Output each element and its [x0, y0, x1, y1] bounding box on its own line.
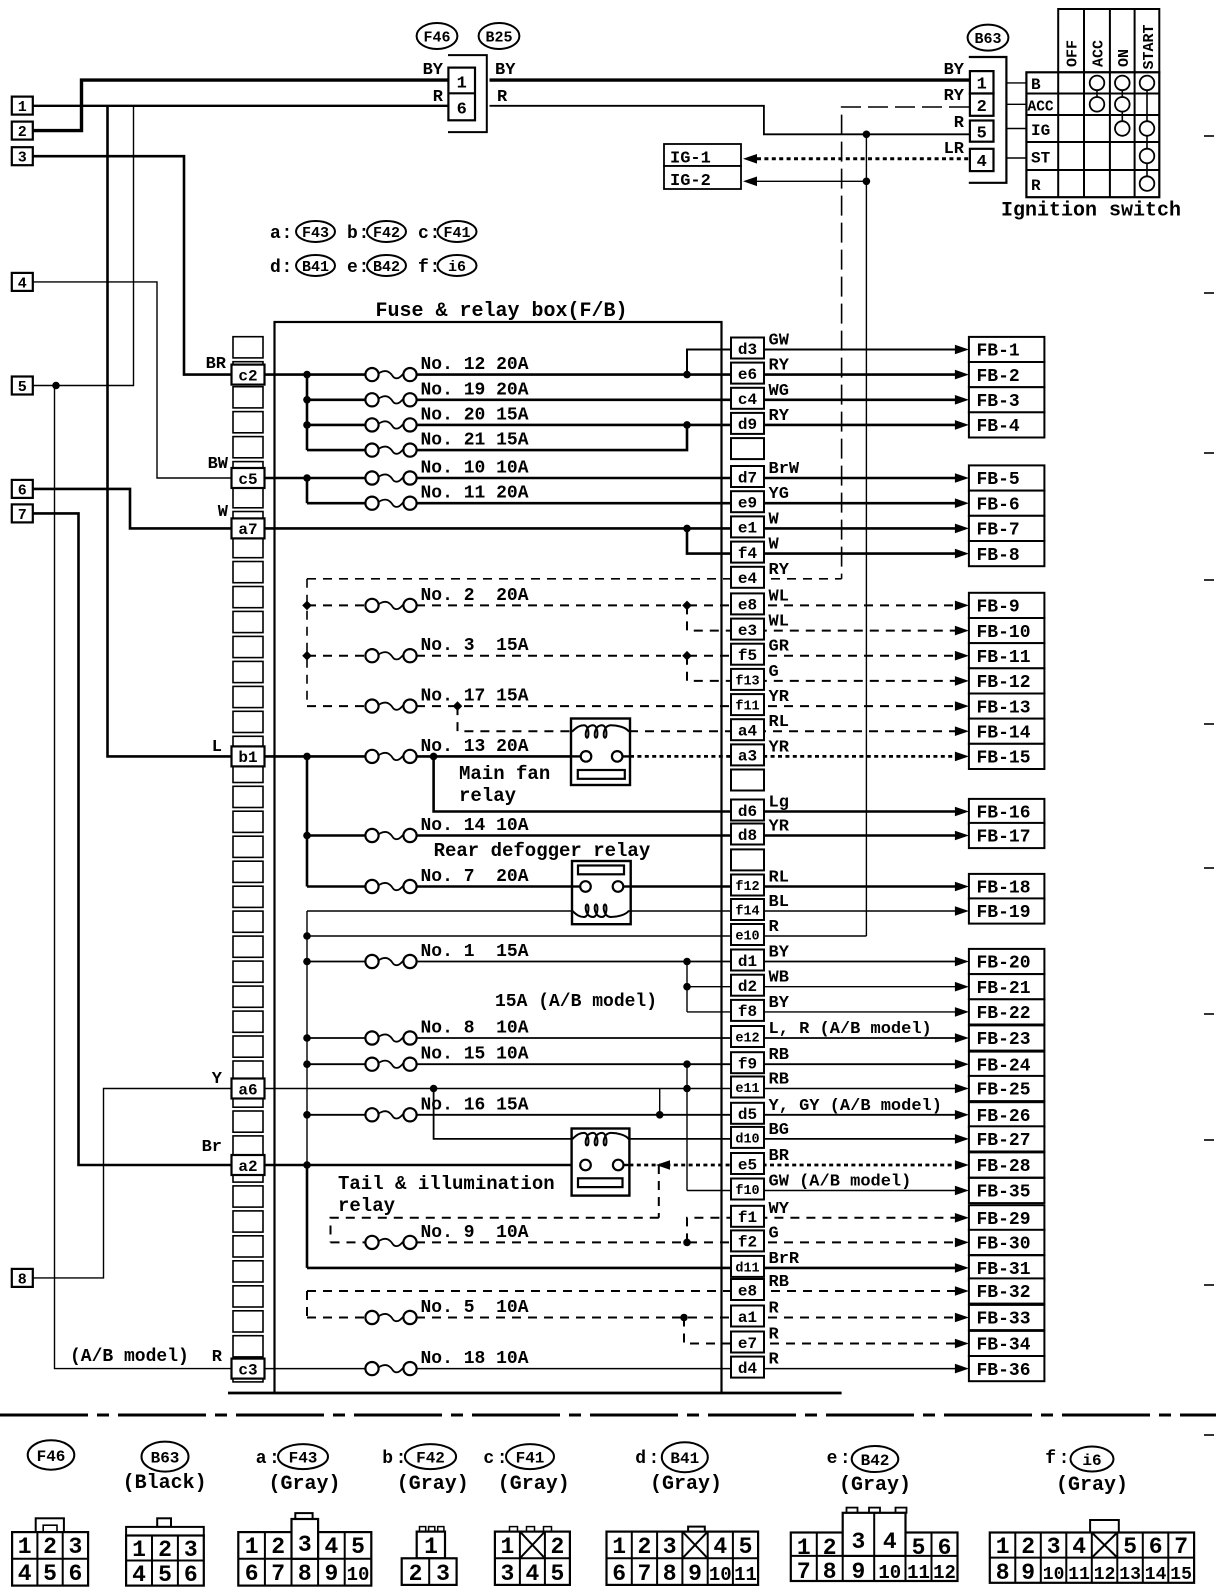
main fan relay contact right — [612, 751, 623, 762]
fuse No.9 — [365, 1236, 378, 1249]
contact circle B/START — [1140, 76, 1155, 91]
svg-text:a6: a6 — [238, 1081, 257, 1099]
cell c2 — [232, 365, 265, 385]
branch vertical d1-d2-f8 — [686, 962, 688, 1012]
svg-text:No. 8 10A: No. 8 10A — [421, 1019, 529, 1039]
svg-text:(Black): (Black) — [123, 1472, 207, 1495]
F42 pinout cell 1 — [417, 1532, 445, 1559]
wire LR dotted from B63 pin 4 to IG-1 — [757, 157, 969, 160]
svg-text:B42: B42 — [861, 1452, 890, 1470]
svg-text:b1: b1 — [238, 749, 257, 767]
arrow into FB-8 — [955, 549, 969, 559]
svg-text:Y, GY (A/B model): Y, GY (A/B model) — [769, 1097, 942, 1116]
arrow into FB-24 — [955, 1059, 969, 1069]
svg-text:d: d — [270, 258, 281, 278]
svg-text:BrR: BrR — [769, 1250, 800, 1269]
cell a2 — [232, 1155, 265, 1175]
edge tick mark — [1204, 452, 1214, 454]
box FB-2 — [969, 362, 1045, 387]
svg-text:a1: a1 — [738, 1309, 757, 1327]
wire branch down to cell f4 — [687, 528, 965, 553]
svg-text:d4: d4 — [738, 1360, 758, 1378]
svg-text:11: 11 — [907, 1562, 930, 1584]
svg-text:d8: d8 — [738, 827, 757, 845]
svg-text:ACC: ACC — [1091, 40, 1108, 67]
svg-text:5: 5 — [739, 1534, 753, 1560]
svg-text:BW: BW — [208, 455, 229, 474]
svg-text:2: 2 — [977, 98, 987, 117]
box FB-24 — [969, 1052, 1045, 1077]
svg-text:GR: GR — [769, 638, 790, 657]
svg-text:FB-24: FB-24 — [977, 1056, 1031, 1076]
right strip cell d3 — [731, 338, 764, 359]
arrow into FB-21 — [955, 982, 969, 992]
svg-text:RY: RY — [769, 407, 790, 426]
svg-text:R: R — [769, 1300, 780, 1319]
contact link ON column — [1121, 83, 1123, 129]
arrow into FB-13 — [955, 701, 969, 711]
svg-text:d: d — [635, 1449, 646, 1469]
svg-text:13: 13 — [1119, 1565, 1141, 1585]
svg-text:G: G — [769, 663, 779, 682]
svg-text:f13: f13 — [735, 674, 759, 689]
svg-text:i6: i6 — [1082, 1452, 1101, 1470]
svg-text:R: R — [497, 88, 508, 107]
svg-text:R: R — [954, 114, 965, 133]
F41 blocked cell X — [520, 1532, 545, 1559]
right strip cell d1 — [731, 950, 764, 971]
B63 pin 2 — [970, 94, 994, 116]
svg-text:5: 5 — [43, 1561, 57, 1587]
svg-text:a: a — [256, 1449, 267, 1469]
arrow into FB-17 — [955, 831, 969, 841]
box FB-23 — [969, 1025, 1045, 1050]
ignition switch table — [1026, 72, 1159, 197]
svg-text:1: 1 — [457, 75, 467, 94]
wire a2 row to tail relay — [263, 1164, 580, 1167]
svg-text:f: f — [1045, 1449, 1056, 1469]
main fan relay bar — [578, 770, 625, 779]
svg-text:FB-35: FB-35 — [977, 1183, 1031, 1203]
junction dot No.8 feed — [303, 1034, 311, 1042]
svg-text:d10: d10 — [735, 1132, 759, 1147]
svg-text:FB-3: FB-3 — [977, 392, 1020, 412]
svg-text:F41: F41 — [443, 225, 470, 242]
wire No.18 row from c3 to cell d4 — [263, 1368, 366, 1370]
svg-text:GW: GW — [769, 332, 790, 351]
svg-text:FB-7: FB-7 — [977, 521, 1020, 541]
svg-text:f5: f5 — [738, 647, 757, 665]
svg-text:4: 4 — [525, 1561, 539, 1587]
svg-text:BY: BY — [769, 944, 790, 963]
dashed drop from BR wire to No.9 feed — [658, 1165, 660, 1218]
svg-text:BL: BL — [769, 893, 789, 912]
svg-text:5: 5 — [351, 1534, 365, 1560]
right strip cell e5 — [731, 1153, 764, 1174]
bottom connector F43 oval — [278, 1444, 328, 1469]
svg-text:3: 3 — [184, 1537, 198, 1563]
svg-text:e8: e8 — [738, 1282, 757, 1300]
box FB-8 — [969, 541, 1045, 566]
IG-1 box — [664, 144, 741, 166]
svg-text:FB-4: FB-4 — [977, 417, 1020, 437]
defogger relay bar — [578, 866, 624, 875]
edge tick mark — [1204, 867, 1214, 869]
wire RY dashed from B63 pin 2 down toward cell e4 — [842, 107, 969, 579]
box FB-18 — [969, 874, 1045, 899]
svg-text:2: 2 — [43, 1534, 57, 1560]
svg-text:2: 2 — [409, 1561, 423, 1587]
box FB-35 — [969, 1178, 1045, 1203]
wire R (A/B model) from box 5 junction to cell c3 — [55, 386, 234, 1369]
wire No.12 row to cell e6 — [416, 373, 965, 376]
dashed branch up to cell f1 — [687, 1218, 965, 1243]
svg-text:FB-28: FB-28 — [977, 1157, 1031, 1177]
wire No.9 row dashed — [331, 1241, 367, 1243]
right strip cell d9 — [731, 413, 764, 434]
bottom connector F42 oval — [405, 1444, 456, 1469]
right strip cell d4 — [731, 1357, 764, 1378]
svg-text:(A/B model): (A/B model) — [70, 1347, 189, 1367]
svg-text:OFF: OFF — [1065, 40, 1082, 67]
F41 pinout grid — [495, 1532, 570, 1585]
junction dot e1/f4 — [683, 525, 691, 533]
svg-text:12: 12 — [933, 1562, 956, 1584]
wire No.1 row to cell d1 — [307, 961, 366, 963]
edge tick mark — [1204, 723, 1214, 725]
svg-text:FB-29: FB-29 — [977, 1210, 1031, 1230]
cell a6 — [232, 1079, 265, 1099]
svg-text:4: 4 — [1072, 1534, 1086, 1560]
branch vertical f9-e11-f10 — [686, 1064, 688, 1190]
fuse No.11 — [365, 497, 378, 510]
box FB-32 — [969, 1278, 1045, 1303]
fuse No.2 — [365, 599, 378, 612]
junction dot a2 bus — [303, 1161, 311, 1169]
box FB-28 — [969, 1152, 1045, 1177]
svg-text:6: 6 — [184, 1562, 198, 1588]
svg-text:3: 3 — [436, 1561, 450, 1587]
svg-text:R: R — [769, 918, 780, 937]
svg-text:1: 1 — [18, 99, 27, 116]
svg-text:4: 4 — [18, 1561, 32, 1587]
main fan relay contact left — [572, 755, 581, 757]
svg-text:2: 2 — [1021, 1534, 1035, 1560]
right strip cell d6 — [731, 800, 764, 821]
B63 pin 5 — [970, 121, 994, 142]
svg-text:FB-14: FB-14 — [977, 723, 1031, 743]
F43 pinout tab — [295, 1513, 312, 1519]
connector B63 outline — [969, 57, 1007, 183]
svg-text:R: R — [769, 1326, 780, 1345]
right strip cell e12 — [731, 1026, 764, 1047]
svg-text:ST: ST — [1031, 150, 1051, 168]
arrow into FB-22 — [955, 1007, 969, 1017]
svg-text:F43: F43 — [302, 225, 329, 242]
svg-text:No. 14 10A: No. 14 10A — [421, 816, 529, 836]
svg-text:(Gray): (Gray) — [397, 1473, 469, 1496]
wire No.14 row to cell d8 — [307, 834, 366, 837]
wire to cell f8 — [687, 1011, 965, 1013]
right strip cell empty — [731, 438, 764, 459]
svg-text:R: R — [1031, 177, 1041, 195]
svg-text:WB: WB — [769, 969, 789, 988]
svg-text:b: b — [382, 1449, 393, 1469]
svg-text:2: 2 — [18, 124, 27, 141]
F42 pinout tabs — [420, 1527, 426, 1532]
arrow into FB-11 — [955, 651, 969, 661]
svg-text:e7: e7 — [738, 1335, 757, 1353]
svg-text:FB-20: FB-20 — [977, 954, 1031, 974]
contact circle ACC/ACC — [1090, 97, 1105, 112]
contact circle ST/START — [1140, 149, 1155, 164]
svg-text:6: 6 — [1149, 1534, 1163, 1560]
tail relay contact left — [580, 1160, 591, 1171]
svg-text:e: e — [827, 1449, 838, 1469]
junction dot No.9 output — [683, 1239, 691, 1247]
right strip cell f4 — [731, 542, 764, 563]
ignition bus vertical thin — [306, 911, 308, 1165]
svg-text:c: c — [418, 224, 429, 244]
svg-text:3: 3 — [68, 1534, 82, 1560]
box FB-22 — [969, 999, 1045, 1024]
svg-text:IG: IG — [1031, 122, 1050, 140]
svg-text:GW (A/B model): GW (A/B model) — [769, 1173, 912, 1192]
box FB-9 — [969, 593, 1045, 618]
wire W from box 6 to cell a7 — [33, 489, 233, 529]
svg-text:IG-2: IG-2 — [670, 172, 711, 191]
dashed bus vertical — [306, 579, 308, 706]
wire BR from box 3 to cell c2 — [33, 156, 233, 374]
arrow into IG-2 — [743, 177, 757, 187]
F42 pinout cells 2 3 — [402, 1558, 457, 1585]
svg-text:8: 8 — [823, 1559, 837, 1585]
svg-text:14: 14 — [1145, 1565, 1167, 1585]
right strip cell e4 — [731, 567, 764, 588]
svg-text:5: 5 — [1123, 1534, 1137, 1560]
svg-text:11: 11 — [1068, 1565, 1090, 1585]
arrow into FB-15 — [955, 752, 969, 762]
svg-text:L, R (A/B model): L, R (A/B model) — [769, 1020, 932, 1039]
main fan relay U1 box — [571, 719, 630, 786]
contact circle B/ACC — [1090, 76, 1105, 91]
arrow into FB-1 — [955, 345, 969, 355]
right strip cell c4 — [731, 388, 764, 409]
svg-text:B41: B41 — [670, 1450, 699, 1468]
right strip cell e6 — [731, 363, 764, 384]
junction dot No.15 feed — [303, 1060, 311, 1068]
fuse No.20 — [365, 418, 378, 431]
arrow into FB-36 — [955, 1364, 969, 1374]
junction dot R wire — [863, 131, 871, 139]
connector F46/B25 pin box — [448, 68, 475, 121]
connector F46/B25 outline — [448, 55, 487, 132]
svg-text:B41: B41 — [302, 259, 329, 276]
svg-text::: : — [649, 1449, 660, 1469]
fuse bus c2 vertical — [306, 375, 309, 451]
svg-text:No. 9 10A: No. 9 10A — [421, 1223, 529, 1243]
box 6 — [12, 480, 33, 498]
svg-text:c: c — [483, 1449, 494, 1469]
diamond junction No.3 output — [682, 651, 692, 661]
svg-text:FB-10: FB-10 — [977, 623, 1031, 643]
wire No.3 feed dashed — [307, 655, 366, 657]
header dividers — [1083, 9, 1085, 72]
junction dot No.20/No.21 — [683, 421, 691, 429]
jog from e11 row down to No.16 row — [659, 1089, 661, 1115]
contact circle IG/START — [1140, 121, 1155, 136]
wire c5 feed — [263, 477, 366, 480]
svg-text:4: 4 — [18, 275, 27, 292]
svg-text:No. 13 20A: No. 13 20A — [421, 737, 529, 757]
svg-text:FB-26: FB-26 — [977, 1107, 1031, 1127]
svg-text:10: 10 — [878, 1562, 901, 1584]
wire BG from e11 row through tail relay coil to cell d10 — [434, 1089, 572, 1139]
right strip cell e10 — [731, 924, 764, 945]
svg-text:3: 3 — [851, 1529, 865, 1555]
stub pin 2 to row ACC — [1006, 103, 1026, 105]
svg-text:relay: relay — [338, 1195, 396, 1217]
dotted wire YR from relay to cell a3 — [630, 755, 965, 758]
svg-text:e9: e9 — [738, 494, 757, 512]
fuse No.21 — [365, 444, 378, 457]
right strip cell f5 — [731, 644, 764, 665]
svg-text:B: B — [1031, 76, 1041, 94]
B42 pinout grid — [791, 1533, 958, 1582]
svg-text:5: 5 — [550, 1561, 564, 1587]
bus a2 vertical to d11 — [306, 1165, 309, 1268]
dashed No.5 feed vertical — [306, 1291, 308, 1318]
svg-text:BR: BR — [769, 1147, 790, 1166]
dashed branch to cell e3 — [687, 605, 965, 630]
svg-text:LR: LR — [944, 140, 965, 159]
wire e11 row from a6 to cell e11 — [263, 1088, 965, 1090]
box FB-29 — [969, 1205, 1045, 1230]
svg-text:1: 1 — [996, 1534, 1010, 1560]
junction dot No.16/jog — [656, 1111, 664, 1119]
svg-text:FB-15: FB-15 — [977, 749, 1031, 769]
wire c2 feed into fuse box — [263, 373, 366, 376]
box FB-6 — [969, 491, 1045, 516]
arrow into FB-12 — [955, 676, 969, 686]
svg-text:(Gray): (Gray) — [650, 1473, 722, 1496]
svg-text:6: 6 — [457, 101, 467, 120]
svg-text:1: 1 — [977, 76, 987, 95]
svg-text:FB-5: FB-5 — [977, 470, 1020, 490]
wire BL from ignition bus to coil — [307, 910, 572, 912]
main fan relay coil — [572, 725, 629, 738]
svg-text:YR: YR — [769, 738, 790, 757]
tail relay contact right — [613, 1160, 624, 1171]
dashed No.9 feed across — [331, 1218, 659, 1243]
junction dot No.12/d3 — [683, 371, 691, 379]
right strip cell f13 — [731, 669, 764, 690]
svg-text:10: 10 — [1043, 1565, 1065, 1585]
svg-text:relay: relay — [459, 785, 517, 807]
svg-text:d2: d2 — [738, 978, 757, 996]
junction dot No.15 output — [683, 1060, 691, 1068]
svg-text:F46: F46 — [37, 1448, 66, 1466]
box FB-10 — [969, 618, 1045, 643]
svg-text:FB-30: FB-30 — [977, 1235, 1031, 1255]
svg-text:4: 4 — [324, 1534, 338, 1560]
wire No.17 feed dashed — [307, 705, 366, 707]
svg-text:1: 1 — [612, 1534, 626, 1560]
bottom connector i6 oval — [1071, 1447, 1114, 1472]
svg-text:BrW: BrW — [769, 460, 800, 479]
svg-text:BY: BY — [944, 61, 965, 80]
fuse No.17 — [365, 700, 378, 713]
svg-text:10: 10 — [347, 1564, 370, 1586]
svg-text:15A (A/B model): 15A (A/B model) — [495, 992, 657, 1012]
dashed wire from relay coil to cell a4 — [629, 730, 965, 732]
edge tick mark — [1204, 135, 1214, 137]
stub pin 1 to row B — [1006, 82, 1026, 84]
contact circle B/ON — [1115, 76, 1130, 91]
svg-text:FB-17: FB-17 — [977, 828, 1031, 848]
svg-text:e5: e5 — [738, 1156, 757, 1174]
F46 pinout body tab — [36, 1518, 64, 1532]
svg-text:F42: F42 — [416, 1449, 445, 1467]
arrow into IG-1 — [743, 154, 757, 164]
arrow into FB-30 — [955, 1238, 969, 1248]
arrow into FB-18 — [955, 882, 969, 892]
svg-text:YR: YR — [769, 818, 790, 837]
junction dot d10 branch — [430, 1085, 438, 1093]
B41 pinout grid — [607, 1532, 759, 1585]
right strip cell f11 — [731, 694, 764, 715]
arrow into FB-34 — [955, 1339, 969, 1349]
box 4 — [12, 273, 33, 291]
bottom connector B63 oval — [142, 1442, 189, 1472]
box FB-15 — [969, 744, 1045, 769]
svg-text:YR: YR — [769, 688, 790, 707]
contact circle IG/ON — [1115, 121, 1130, 136]
svg-text:1: 1 — [500, 1534, 514, 1560]
svg-text:No. 12 20A: No. 12 20A — [421, 355, 529, 375]
svg-text:Rear defogger relay: Rear defogger relay — [434, 840, 651, 862]
arrow on BR wire toward relay — [656, 1160, 670, 1170]
svg-text:6: 6 — [68, 1561, 82, 1587]
svg-text:a: a — [270, 224, 281, 244]
right strip cell f1 — [731, 1206, 764, 1227]
wire branch down to cell d6 — [434, 756, 965, 811]
svg-text:FB-8: FB-8 — [977, 546, 1020, 566]
wire to cell f10 — [687, 1190, 965, 1192]
fuse No.19 — [365, 393, 378, 406]
right strip cell d7 — [731, 466, 764, 487]
F43 pinout grid — [238, 1532, 371, 1586]
svg-text:7: 7 — [271, 1561, 285, 1587]
fuse No.1 — [365, 955, 378, 968]
F41 pinout tabs — [510, 1527, 518, 1533]
junction dots c2 bus — [303, 371, 311, 379]
box FB-7 — [969, 516, 1045, 541]
box FB-14 — [969, 719, 1045, 744]
svg-text:FB-2: FB-2 — [977, 367, 1020, 387]
right strip cell f10 — [731, 1179, 764, 1200]
svg-text:R: R — [433, 88, 444, 107]
wire No.19 feed — [307, 398, 366, 401]
svg-text:4: 4 — [977, 153, 987, 172]
svg-text:WG: WG — [769, 382, 789, 401]
svg-text:2: 2 — [823, 1535, 837, 1561]
box 5 — [12, 377, 33, 395]
right strip cell e8 — [731, 1279, 764, 1300]
wire No.11 row to cell e9 — [416, 502, 965, 505]
svg-text:f10: f10 — [735, 1184, 759, 1199]
svg-text:9: 9 — [688, 1561, 702, 1587]
